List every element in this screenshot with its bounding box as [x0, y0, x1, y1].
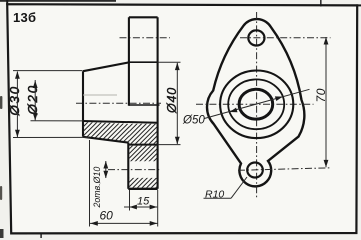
- dim Ø40: [176, 63, 178, 144]
- Ø20 extension line: [31, 120, 84, 122]
- faint bore ghost line: [83, 94, 117, 96]
- dim 70: [325, 37, 327, 167]
- left edge smudge 2: [0, 186, 2, 200]
- right view: vertical centreline: [256, 12, 258, 199]
- boss circle Ø50: [228, 79, 284, 129]
- svg-text:R10: R10: [205, 189, 224, 201]
- svg-text:Ø40: Ø40: [165, 87, 179, 114]
- page top scan line: [0, 0, 116, 2]
- bottom hole Ø10: [247, 163, 263, 178]
- top hole Ø10: [248, 30, 264, 45]
- dim 60: [89, 140, 91, 227]
- svg-text:60: 60: [100, 209, 114, 223]
- cone small-end left edge: [82, 71, 84, 137]
- dim Ø50 diagonal: [204, 89, 309, 118]
- svg-text:2отв.Ø10: 2отв.Ø10: [92, 167, 102, 209]
- tick above frame: [320, 0, 322, 7]
- plate left edge lower (section): [127, 143, 129, 189]
- left view: bottom hole centreline: [108, 169, 161, 171]
- plate bottom edge: [128, 188, 157, 190]
- hub Ø40 bottom edge (section): [128, 144, 157, 146]
- svg-text:Ø20: Ø20: [25, 84, 40, 115]
- hub Ø40 top edge in plate: [129, 61, 158, 63]
- tick below frame: [40, 233, 42, 238]
- cone bottom slant edge (section): [83, 137, 129, 143]
- Ø40 top extension line: [158, 61, 181, 63]
- svg-text:Ø30: Ø30: [7, 85, 22, 116]
- svg-text:13б: 13б: [13, 10, 36, 25]
- svg-text:15: 15: [137, 196, 150, 208]
- dim 15: [129, 190, 131, 211]
- left view: main axis centreline: [76, 102, 161, 104]
- left border extension to page top: [6, 0, 8, 5]
- cone top slant edge: [83, 62, 129, 71]
- outer ring circle: [220, 71, 293, 139]
- bore circle Ø20: [239, 89, 273, 119]
- left view: top hole centreline: [120, 37, 171, 39]
- svg-text:70: 70: [314, 88, 328, 103]
- top hole centreline / 70 extension: [240, 37, 331, 39]
- label R10 with leader: [204, 197, 232, 199]
- svg-text:Ø50: Ø50: [182, 115, 205, 127]
- bottom-left corner smudge: [0, 229, 4, 238]
- top border overshoot to page edge: [356, 4, 361, 6]
- bore Ø20 bottom edge (section): [83, 121, 158, 123]
- left edge smudge 1: [0, 96, 2, 109]
- right view: flange outline: [207, 19, 304, 186]
- plate left edge upper: [128, 17, 130, 105]
- Ø40 bottom extension line: [158, 144, 181, 146]
- plate top edge: [129, 16, 158, 18]
- dim 2отв Ø10 leader: [105, 161, 107, 178]
- right view: horizontal centreline: [196, 103, 314, 105]
- plate right edge: [157, 17, 159, 189]
- bottom hole centreline / 70 extension: [238, 168, 331, 171]
- hub step edge below axis: [129, 104, 160, 106]
